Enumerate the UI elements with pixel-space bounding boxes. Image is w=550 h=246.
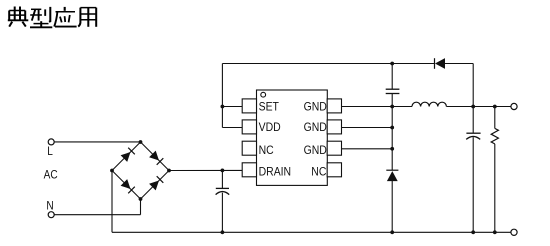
pad pin GND3 bbox=[327, 141, 341, 155]
svg-text:GND: GND bbox=[304, 122, 327, 135]
wire output node to R1 bbox=[494, 107, 496, 129]
wire left riser x222 bbox=[221, 64, 223, 128]
title glyph 3 (ying) bbox=[64, 7, 66, 11]
junction DRAIN/C1 bbox=[221, 169, 225, 173]
svg-text:L: L bbox=[47, 145, 53, 158]
wire D2 anode to ground rail bbox=[391, 181, 393, 232]
wire top rail left of D1 bbox=[222, 63, 434, 65]
bridge diode left-to-bottom bbox=[121, 179, 131, 189]
junction GND2 node bbox=[390, 126, 394, 130]
wire GND pin3 to node bbox=[341, 148, 392, 150]
title glyph 4 (yong) bbox=[78, 8, 80, 27]
wire bridge right node to DRAIN bbox=[169, 169, 242, 171]
title glyph 2 (xing) bbox=[31, 8, 41, 10]
capacitor C2 (top, non-polarized) bbox=[386, 88, 400, 90]
bridge diode top-to-right bbox=[149, 151, 159, 161]
junction D2 ground bbox=[390, 230, 394, 234]
svg-text:DRAIN: DRAIN bbox=[259, 166, 292, 179]
wire top rail to C2 bbox=[391, 64, 393, 90]
terminal N bbox=[48, 212, 54, 218]
bridge rectifier BD1 edge left-top bbox=[112, 142, 141, 171]
junction GND1 node bbox=[390, 105, 394, 109]
IC U1 body bbox=[257, 90, 328, 185]
bridge edge left-bottom bbox=[112, 171, 141, 200]
pad pin GND1 bbox=[327, 99, 341, 113]
pad pin NC right bbox=[327, 163, 341, 177]
inductor L1 bbox=[412, 102, 446, 106]
wire DRAIN node to C1 bbox=[221, 170, 223, 188]
terminal L bbox=[48, 139, 54, 145]
junction output/C3 bbox=[471, 105, 475, 109]
wire top rail drop to output node bbox=[472, 64, 474, 107]
title glyph 1 (dian) bbox=[15, 7, 20, 21]
bridge edge top-right bbox=[141, 142, 170, 171]
svg-text:VDD: VDD bbox=[259, 122, 281, 135]
wire L input to bridge top bbox=[54, 141, 140, 143]
pad pin DRAIN bbox=[242, 163, 256, 177]
junction R1 ground bbox=[493, 230, 497, 234]
terminal output- bbox=[511, 229, 517, 235]
wire C3 to ground rail bbox=[472, 137, 474, 232]
svg-text:NC: NC bbox=[259, 144, 274, 157]
svg-text:SET: SET bbox=[259, 101, 279, 114]
svg-text:GND: GND bbox=[304, 144, 327, 157]
pad pin GND2 bbox=[327, 120, 341, 134]
wire ground rail bbox=[112, 231, 511, 233]
junction SET riser bbox=[221, 105, 225, 109]
svg-text:AC: AC bbox=[44, 169, 58, 182]
pad pin VDD bbox=[242, 120, 256, 134]
junction C1 ground bbox=[221, 230, 225, 234]
bridge diode left-to-top bbox=[121, 152, 131, 162]
svg-text:N: N bbox=[46, 200, 53, 213]
wire R1 to ground rail bbox=[494, 144, 496, 232]
junction top rail/C2 bbox=[390, 62, 394, 66]
diode D1 (top rail, cathode left) bbox=[434, 58, 436, 69]
capacitor C3 output (polarized) bbox=[466, 132, 480, 134]
pad pin SET bbox=[242, 99, 256, 113]
wire N input run bbox=[54, 214, 140, 216]
svg-text:GND: GND bbox=[304, 101, 327, 114]
node bridge right bbox=[167, 169, 171, 173]
wire C2 to D2 cathode bbox=[391, 94, 393, 171]
wire GND pin1 to inductor bbox=[341, 106, 412, 108]
junction GND3 node bbox=[390, 147, 394, 151]
bridge edge bottom-right bbox=[141, 171, 170, 200]
wire inductor to output terminal bbox=[446, 106, 511, 108]
wire top rail right of D1 bbox=[445, 63, 473, 65]
U1 pin1 indicator circle bbox=[261, 92, 266, 97]
terminal output+ bbox=[511, 103, 517, 109]
wire GND pin2 to node bbox=[341, 127, 392, 129]
diode D2 freewheeling (cathode up) bbox=[386, 169, 398, 171]
wire C1 to ground rail bbox=[221, 193, 223, 233]
pad pin NC left bbox=[242, 141, 256, 155]
capacitor C1 input bulk (polarized) bbox=[216, 187, 229, 189]
resistor R1 load bbox=[491, 128, 498, 144]
node bridge top bbox=[139, 140, 143, 144]
wire bridge left node to ground rail bbox=[111, 171, 113, 233]
svg-text:NC: NC bbox=[311, 166, 326, 179]
wire output node to C3 bbox=[472, 107, 474, 134]
node bridge bottom bbox=[139, 197, 143, 201]
bridge diode bottom-to-right bbox=[149, 181, 159, 191]
wire N riser to bridge bottom bbox=[140, 199, 142, 215]
wire to SET pin bbox=[222, 106, 242, 108]
junction C3 ground bbox=[471, 230, 475, 234]
node bridge left bbox=[110, 169, 114, 173]
wire to VDD pin bbox=[222, 127, 242, 129]
junction output/R1 bbox=[493, 105, 497, 109]
